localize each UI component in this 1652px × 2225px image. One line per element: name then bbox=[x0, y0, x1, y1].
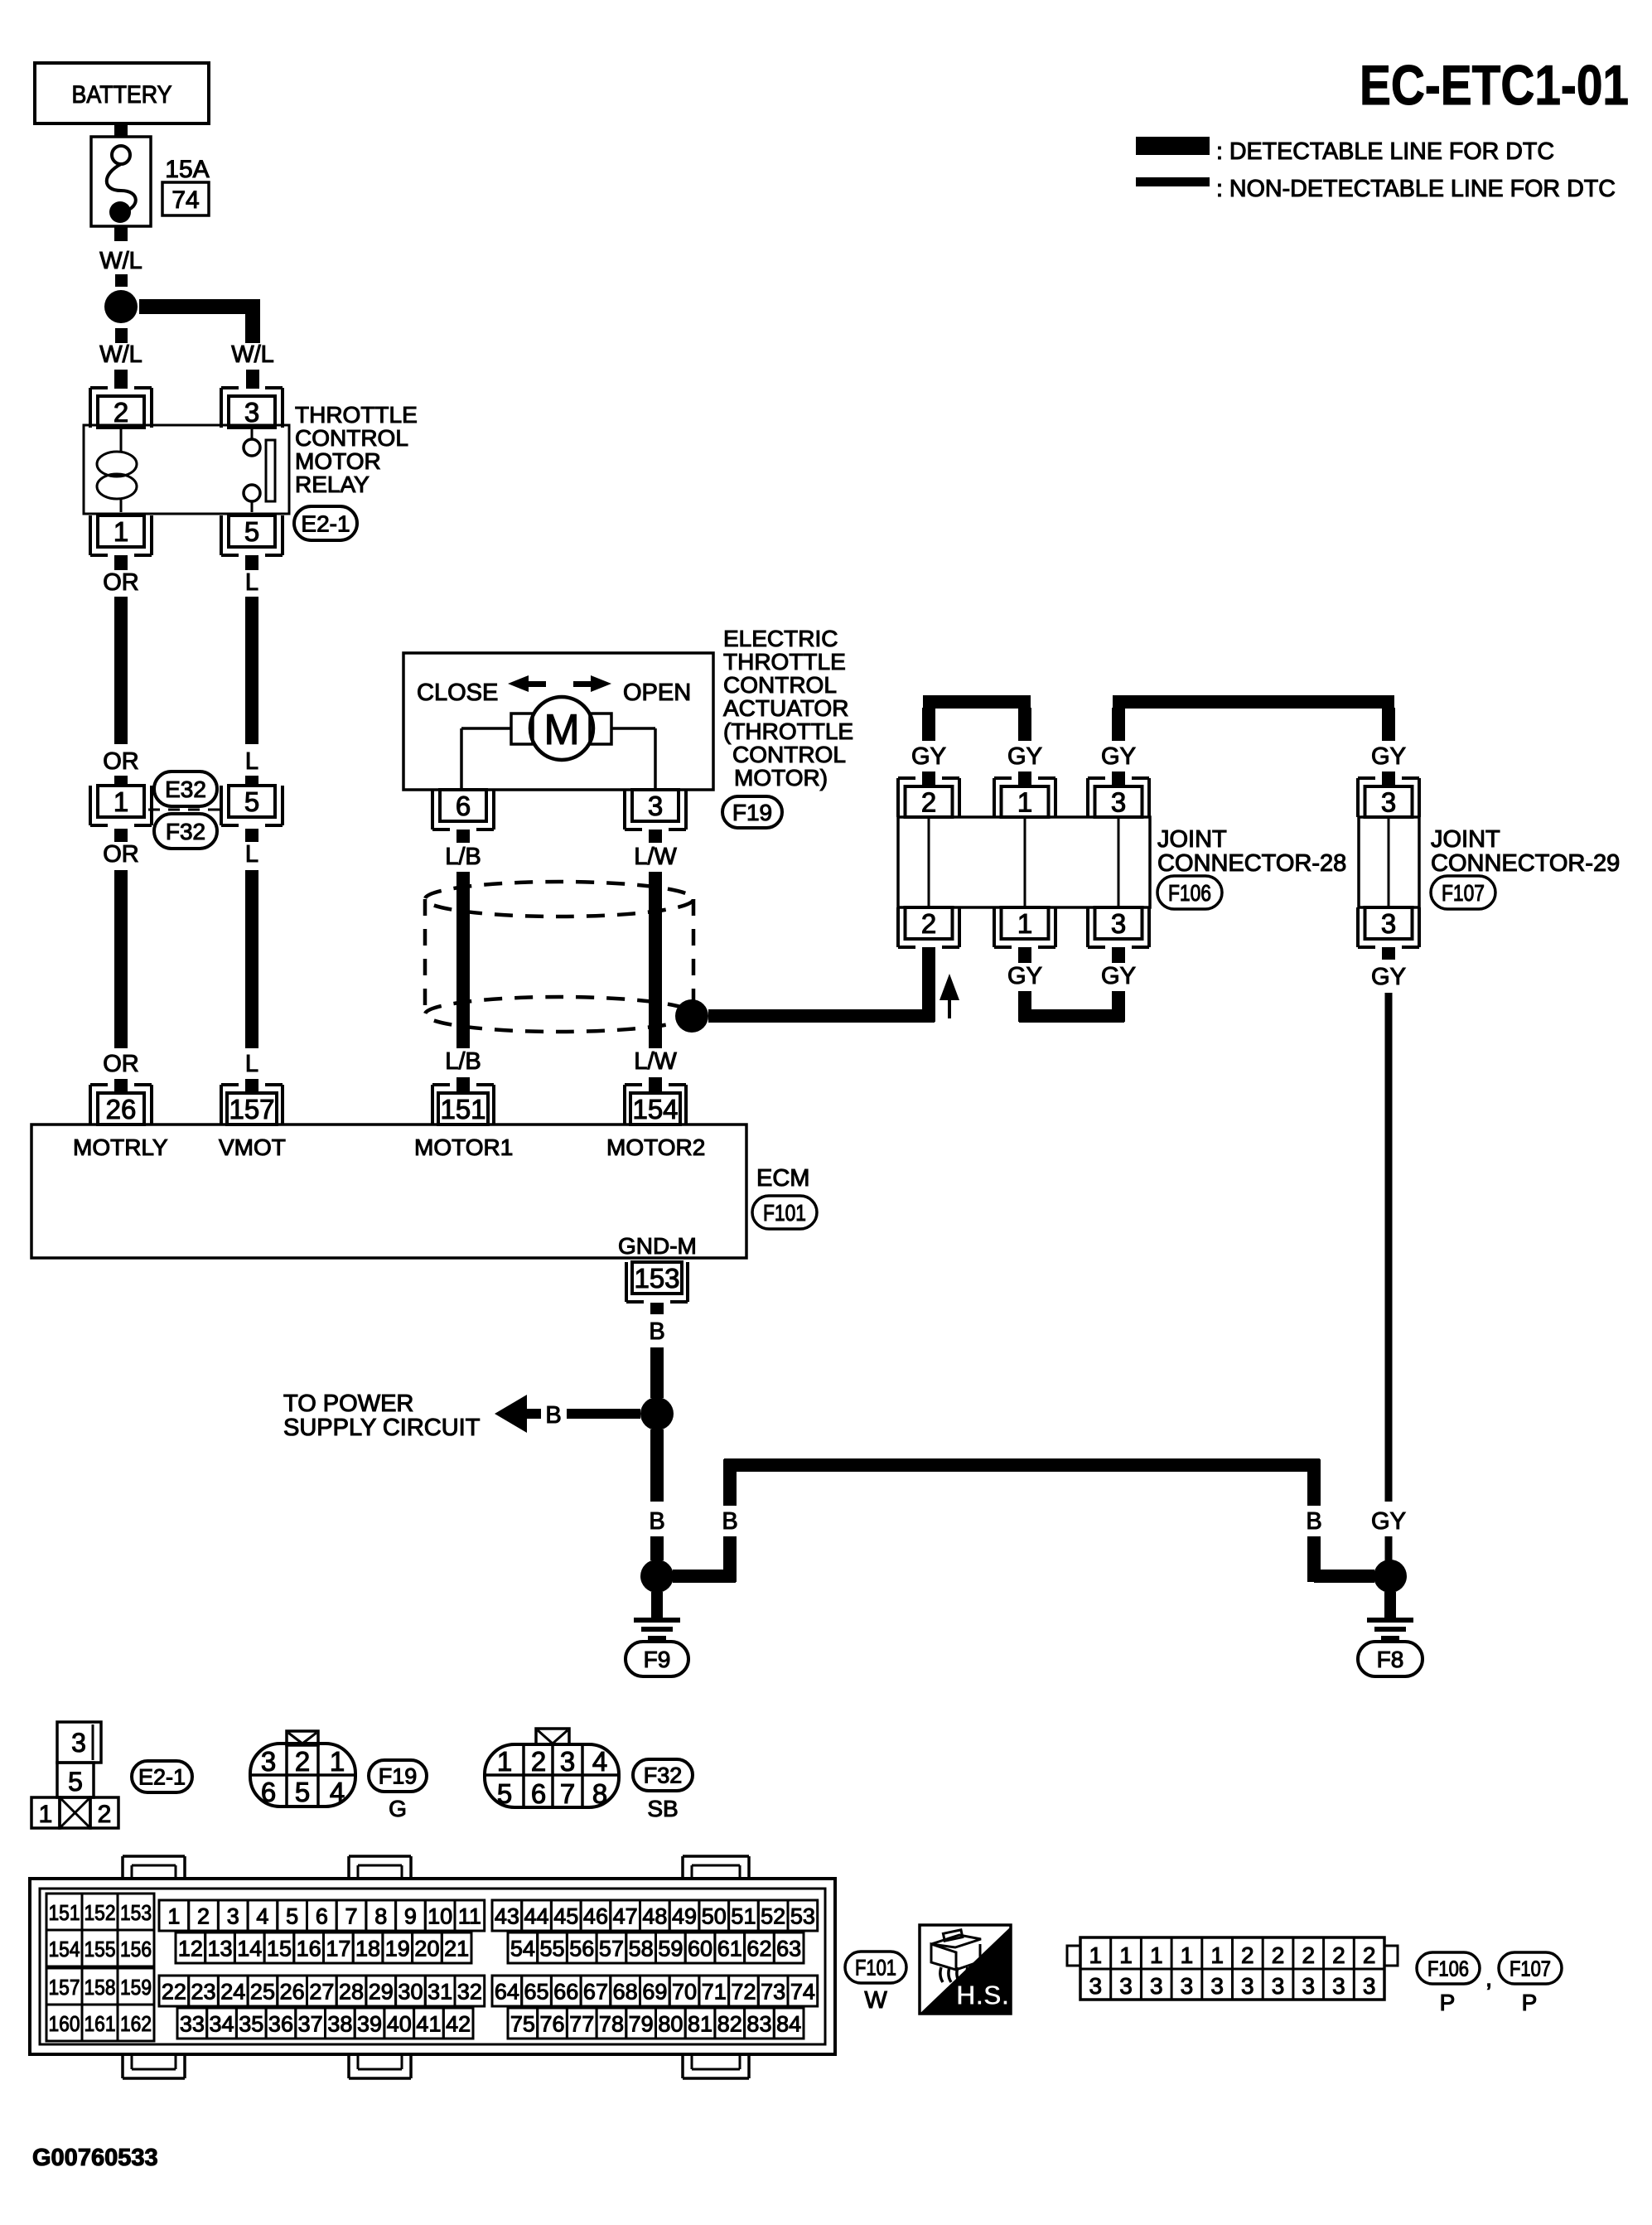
connector ref F19 (footprint) bbox=[369, 1760, 427, 1821]
svg-text:43: 43 bbox=[495, 1904, 519, 1929]
wire L relay pin 5 to connector F32 pin 5 bbox=[245, 555, 258, 786]
svg-text:161: 161 bbox=[85, 2011, 116, 2036]
svg-text:3: 3 bbox=[1150, 1973, 1163, 1999]
svg-text:L/B: L/B bbox=[445, 1048, 481, 1075]
svg-text:13: 13 bbox=[208, 1937, 233, 1961]
svg-text:3: 3 bbox=[1363, 1973, 1376, 1999]
svg-text:L: L bbox=[245, 569, 258, 596]
svg-text:45: 45 bbox=[553, 1904, 578, 1929]
relay K1: throttle control motor relay bbox=[84, 425, 289, 514]
actuator pin 6 bbox=[432, 790, 494, 830]
svg-text:MOTOR: MOTOR bbox=[295, 448, 381, 474]
ground symbol F8 bbox=[1367, 1592, 1413, 1641]
ECM pin 26 bbox=[90, 1085, 152, 1125]
svg-text:7: 7 bbox=[345, 1904, 358, 1929]
ECM pin 153 GND-M bbox=[626, 1262, 688, 1302]
svg-text:2: 2 bbox=[531, 1746, 546, 1777]
svg-text:20: 20 bbox=[414, 1937, 439, 1961]
svg-text:49: 49 bbox=[672, 1904, 697, 1929]
dashed connector separator bbox=[148, 809, 222, 811]
svg-text:8: 8 bbox=[374, 1904, 387, 1929]
svg-text:76: 76 bbox=[540, 2012, 565, 2037]
svg-text:: DETECTABLE LINE FOR DTC: : DETECTABLE LINE FOR DTC bbox=[1216, 138, 1554, 165]
svg-text:3: 3 bbox=[1089, 1973, 1103, 1999]
svg-text:E2-1: E2-1 bbox=[138, 1765, 186, 1790]
svg-text:3: 3 bbox=[1332, 1973, 1345, 1999]
svg-text:157: 157 bbox=[49, 1975, 80, 2000]
svg-text:5: 5 bbox=[286, 1904, 298, 1929]
svg-text:F106: F106 bbox=[1168, 880, 1211, 906]
svg-text:40: 40 bbox=[387, 2012, 412, 2037]
svg-text:MOTOR): MOTOR) bbox=[734, 765, 828, 791]
relay pin 3 bbox=[221, 388, 283, 428]
svg-text:W/L: W/L bbox=[99, 248, 142, 274]
wire W/L battery to fuse bbox=[114, 123, 128, 146]
svg-text:3: 3 bbox=[1119, 1973, 1133, 1999]
wire junction to joint connector-28 pin 2 bottom bbox=[708, 947, 935, 1023]
svg-text:GND-M: GND-M bbox=[618, 1233, 697, 1259]
connector E32/F32 pin 5 bbox=[221, 786, 283, 825]
svg-text:81: 81 bbox=[688, 2012, 712, 2037]
connector ref F101 (footprint) bbox=[845, 1952, 906, 2014]
wire B ground bus F9 to F8 bbox=[673, 1458, 1374, 1583]
legend non-detectable line bbox=[1136, 176, 1616, 202]
shield cylinder (dashed) bbox=[425, 882, 693, 1032]
wire GY bridge F106 pin2 to pin1 bbox=[911, 695, 1042, 786]
svg-text:B: B bbox=[649, 1318, 664, 1345]
svg-text:10: 10 bbox=[427, 1904, 452, 1929]
svg-text:37: 37 bbox=[298, 2012, 323, 2037]
F106 pin 1 top bbox=[994, 778, 1055, 817]
svg-text:F107: F107 bbox=[1442, 880, 1485, 906]
connector refs F106 , F107 (footprint) bbox=[1417, 1952, 1562, 2015]
ECM pin 154 bbox=[625, 1085, 686, 1125]
svg-text:L: L bbox=[245, 1051, 258, 1077]
svg-text:GY: GY bbox=[1371, 743, 1406, 770]
svg-text:1: 1 bbox=[497, 1746, 512, 1777]
svg-text:5: 5 bbox=[68, 1767, 83, 1797]
svg-text:CONTROL: CONTROL bbox=[295, 425, 408, 451]
svg-text:F106: F106 bbox=[1427, 1956, 1469, 1981]
F106 pin 2 bottom bbox=[898, 907, 959, 947]
svg-text:46: 46 bbox=[583, 1904, 608, 1929]
svg-text:1: 1 bbox=[167, 1904, 180, 1929]
svg-text:8: 8 bbox=[592, 1778, 607, 1809]
svg-text:1: 1 bbox=[1089, 1942, 1103, 1968]
joint connector-29 F107 body bbox=[1359, 817, 1419, 907]
svg-text:CONNECTOR-29: CONNECTOR-29 bbox=[1431, 850, 1620, 877]
svg-text:F8: F8 bbox=[1377, 1647, 1404, 1672]
wire W/L junction to relay pin 2 bbox=[99, 328, 142, 389]
svg-text:1: 1 bbox=[1017, 908, 1032, 939]
svg-text:38: 38 bbox=[327, 2012, 352, 2037]
svg-text:162: 162 bbox=[120, 2011, 152, 2036]
svg-text:TO POWER: TO POWER bbox=[283, 1391, 413, 1417]
svg-text:63: 63 bbox=[776, 1937, 801, 1961]
svg-text:3: 3 bbox=[1302, 1973, 1315, 1999]
svg-text:3: 3 bbox=[1272, 1973, 1285, 1999]
svg-text:39: 39 bbox=[357, 2012, 382, 2037]
svg-text:57: 57 bbox=[599, 1937, 624, 1961]
svg-text:5: 5 bbox=[244, 516, 259, 547]
svg-text:MOTRLY: MOTRLY bbox=[73, 1134, 168, 1160]
wire GY F107 pin3 down to ground junction (non-detectable thin) bbox=[1371, 947, 1406, 1560]
svg-text:74: 74 bbox=[790, 1980, 815, 2005]
svg-text:15A: 15A bbox=[165, 156, 209, 183]
svg-text:3: 3 bbox=[1210, 1973, 1224, 1999]
svg-text:: NON-DETECTABLE LINE FOR DTC: : NON-DETECTABLE LINE FOR DTC bbox=[1216, 176, 1616, 202]
svg-text:15: 15 bbox=[267, 1937, 292, 1961]
svg-text:17: 17 bbox=[326, 1937, 350, 1961]
ground symbol F9 bbox=[634, 1592, 680, 1641]
svg-text:VMOT: VMOT bbox=[219, 1134, 286, 1160]
svg-text:25: 25 bbox=[250, 1980, 275, 2005]
svg-text:160: 160 bbox=[49, 2011, 80, 2036]
svg-text:32: 32 bbox=[457, 1980, 482, 2005]
node L/W junction bbox=[675, 999, 708, 1033]
svg-text:73: 73 bbox=[761, 1980, 785, 2005]
connector footprint F19 bbox=[250, 1731, 355, 1807]
svg-text:23: 23 bbox=[191, 1980, 216, 2005]
fuse 15A [74] bbox=[91, 137, 210, 226]
F106 pin 3 top bbox=[1088, 778, 1149, 817]
svg-text:L/W: L/W bbox=[634, 1048, 677, 1075]
svg-text:ECM: ECM bbox=[756, 1165, 809, 1192]
svg-text:5: 5 bbox=[497, 1778, 512, 1809]
relay pin 1 bbox=[90, 515, 152, 555]
node B power junction bbox=[640, 1397, 674, 1430]
svg-text:154: 154 bbox=[49, 1937, 80, 1961]
svg-text:(THROTTLE: (THROTTLE bbox=[723, 718, 853, 744]
svg-text:2: 2 bbox=[295, 1746, 310, 1777]
svg-text:48: 48 bbox=[642, 1904, 667, 1929]
svg-text:2: 2 bbox=[1302, 1942, 1315, 1968]
svg-text:159: 159 bbox=[120, 1975, 152, 2000]
svg-text:58: 58 bbox=[629, 1937, 654, 1961]
svg-text:157: 157 bbox=[229, 1094, 274, 1125]
svg-text:28: 28 bbox=[339, 1980, 364, 2005]
svg-text:18: 18 bbox=[355, 1937, 380, 1961]
svg-text:3: 3 bbox=[560, 1746, 575, 1777]
svg-text:153: 153 bbox=[120, 1900, 152, 1925]
node B ground junction F9 bbox=[640, 1560, 674, 1593]
F106 pin 1 bottom bbox=[994, 907, 1055, 947]
svg-text:61: 61 bbox=[717, 1937, 742, 1961]
svg-text:EC-ETC1-01: EC-ETC1-01 bbox=[1360, 54, 1629, 117]
ECM pin 157 bbox=[221, 1085, 283, 1125]
svg-text:82: 82 bbox=[717, 2012, 742, 2037]
svg-text:E32: E32 bbox=[165, 776, 206, 802]
relay pin 2 bbox=[90, 388, 152, 428]
svg-text:27: 27 bbox=[309, 1980, 334, 2005]
svg-text:P: P bbox=[1522, 1990, 1538, 2015]
F106 pin 3 bottom bbox=[1088, 907, 1149, 947]
svg-text:154: 154 bbox=[632, 1094, 678, 1125]
svg-text:W/L: W/L bbox=[99, 341, 142, 368]
svg-text:64: 64 bbox=[495, 1980, 519, 2005]
svg-text:2: 2 bbox=[1363, 1942, 1376, 1968]
svg-text:70: 70 bbox=[672, 1980, 697, 2005]
svg-text:158: 158 bbox=[85, 1975, 116, 2000]
svg-text:OPEN: OPEN bbox=[623, 680, 691, 706]
svg-text:69: 69 bbox=[642, 1980, 667, 2005]
svg-text:2: 2 bbox=[1272, 1942, 1285, 1968]
svg-text:80: 80 bbox=[658, 2012, 683, 2037]
F106 pin 2 top bbox=[898, 778, 959, 817]
svg-text:50: 50 bbox=[702, 1904, 727, 1929]
svg-text:SB: SB bbox=[647, 1796, 678, 1821]
actuator name label bbox=[723, 626, 853, 791]
svg-text:3: 3 bbox=[227, 1904, 239, 1929]
svg-text:75: 75 bbox=[510, 2012, 535, 2037]
svg-text:72: 72 bbox=[731, 1980, 756, 2005]
svg-text:F9: F9 bbox=[644, 1647, 671, 1672]
up arrow marker bbox=[940, 974, 959, 1018]
svg-text:,: , bbox=[1485, 1965, 1492, 1992]
connector ref E2-1 (footprint) bbox=[132, 1761, 192, 1792]
svg-text:BATTERY: BATTERY bbox=[72, 81, 172, 109]
svg-text:G00760533: G00760533 bbox=[32, 2145, 158, 2171]
svg-text:THROTTLE: THROTTLE bbox=[295, 402, 418, 428]
svg-text:34: 34 bbox=[210, 2012, 234, 2037]
svg-text:OR: OR bbox=[103, 569, 139, 596]
svg-text:THROTTLE: THROTTLE bbox=[723, 649, 846, 675]
joint connector-28 F106 body bbox=[898, 817, 1150, 907]
svg-text:JOINT: JOINT bbox=[1157, 826, 1227, 853]
svg-text:5: 5 bbox=[244, 786, 259, 817]
svg-text:B: B bbox=[1306, 1508, 1321, 1535]
svg-text:3: 3 bbox=[261, 1746, 276, 1777]
svg-text:CONTROL: CONTROL bbox=[732, 742, 846, 767]
battery bbox=[35, 63, 209, 123]
wire GY U-link F106 pins 1-3 bottom bbox=[1007, 947, 1136, 1023]
wire W/L branch junction to relay pin 3 bbox=[139, 299, 274, 389]
svg-text:54: 54 bbox=[510, 1937, 535, 1961]
ECM connector footprint F101 bbox=[30, 1856, 835, 2078]
svg-text:2: 2 bbox=[921, 786, 936, 817]
svg-text:RELAY: RELAY bbox=[295, 472, 370, 497]
svg-text:77: 77 bbox=[569, 2012, 594, 2037]
svg-text:L/B: L/B bbox=[445, 844, 481, 870]
wire L/B actuator pin 6 to ECM pin 151 bbox=[445, 830, 481, 1093]
svg-text:7: 7 bbox=[560, 1778, 575, 1809]
wire OR relay pin 1 to connector E32 pin 1 bbox=[103, 555, 139, 786]
svg-text:71: 71 bbox=[702, 1980, 727, 2005]
svg-text:OR: OR bbox=[103, 1051, 139, 1077]
svg-text:2: 2 bbox=[114, 397, 128, 428]
svg-text:GY: GY bbox=[1371, 964, 1406, 990]
svg-text:36: 36 bbox=[268, 2012, 293, 2037]
connector ref F32 (footprint) bbox=[633, 1759, 693, 1821]
svg-text:3: 3 bbox=[1381, 908, 1396, 939]
svg-text:44: 44 bbox=[524, 1904, 549, 1929]
svg-text:56: 56 bbox=[569, 1937, 594, 1961]
svg-text:62: 62 bbox=[746, 1937, 771, 1961]
svg-text:6: 6 bbox=[456, 791, 471, 821]
svg-text:2: 2 bbox=[921, 908, 936, 939]
svg-text:L: L bbox=[245, 748, 258, 775]
svg-text:29: 29 bbox=[369, 1980, 394, 2005]
svg-text:84: 84 bbox=[776, 2012, 801, 2037]
connector ref F32 bbox=[154, 814, 217, 849]
svg-text:151: 151 bbox=[440, 1094, 485, 1125]
connector footprint F32 bbox=[485, 1729, 619, 1809]
svg-text:6: 6 bbox=[531, 1778, 546, 1809]
connector ref F101 bbox=[752, 1196, 817, 1229]
svg-text:W/L: W/L bbox=[231, 341, 274, 368]
svg-text:83: 83 bbox=[746, 2012, 771, 2037]
joint connector footprint F106/F107 bbox=[1067, 1937, 1398, 2000]
svg-text:GY: GY bbox=[911, 743, 946, 770]
svg-text:B: B bbox=[722, 1508, 737, 1535]
svg-text:F101: F101 bbox=[855, 1956, 896, 1981]
svg-text:55: 55 bbox=[540, 1937, 565, 1961]
svg-text:24: 24 bbox=[220, 1980, 245, 2005]
svg-text:3: 3 bbox=[1181, 1973, 1194, 1999]
connector E32/F32 pin 1 bbox=[90, 786, 152, 825]
svg-text:151: 151 bbox=[49, 1900, 80, 1925]
svg-text:B: B bbox=[649, 1508, 664, 1535]
electric throttle control actuator box bbox=[403, 653, 713, 790]
svg-text:3: 3 bbox=[1111, 908, 1126, 939]
connector ref F19 bbox=[722, 796, 782, 828]
connector ref F106 bbox=[1157, 876, 1222, 909]
svg-text:E2-1: E2-1 bbox=[301, 511, 350, 537]
joint connector-29 label bbox=[1431, 826, 1620, 877]
svg-text:26: 26 bbox=[280, 1980, 305, 2005]
wire L/W actuator pin 3 to ECM pin 154 bbox=[634, 830, 677, 1093]
svg-text:12: 12 bbox=[178, 1937, 203, 1961]
svg-text:3: 3 bbox=[71, 1728, 86, 1758]
svg-text:6: 6 bbox=[261, 1777, 276, 1807]
svg-text:41: 41 bbox=[416, 2012, 441, 2037]
legend detectable line bbox=[1136, 137, 1554, 165]
connector footprint E2-1 bbox=[31, 1722, 118, 1828]
svg-text:5: 5 bbox=[295, 1777, 310, 1807]
svg-text:ELECTRIC: ELECTRIC bbox=[723, 626, 838, 651]
svg-text:F101: F101 bbox=[763, 1200, 806, 1226]
svg-text:79: 79 bbox=[629, 2012, 654, 2037]
svg-text:3: 3 bbox=[244, 397, 259, 428]
svg-text:16: 16 bbox=[297, 1937, 321, 1961]
H.S. view icon bbox=[920, 1925, 1011, 2014]
svg-text:1: 1 bbox=[114, 786, 128, 817]
svg-text:51: 51 bbox=[731, 1904, 756, 1929]
ECM pin 151 bbox=[432, 1085, 494, 1125]
svg-text:21: 21 bbox=[444, 1937, 469, 1961]
node GY ground junction F8 bbox=[1374, 1560, 1407, 1593]
svg-text:4: 4 bbox=[330, 1777, 345, 1807]
F107 pin 3 bottom bbox=[1358, 907, 1419, 947]
svg-text:30: 30 bbox=[398, 1980, 423, 2005]
svg-text:GY: GY bbox=[1101, 743, 1136, 770]
svg-text:1: 1 bbox=[1210, 1942, 1224, 1968]
svg-text:SUPPLY CIRCUIT: SUPPLY CIRCUIT bbox=[283, 1415, 481, 1441]
svg-text:19: 19 bbox=[385, 1937, 410, 1961]
connector ref F9 bbox=[626, 1642, 688, 1676]
svg-text:F32: F32 bbox=[166, 819, 205, 844]
to power supply circuit label + arrow bbox=[283, 1391, 640, 1441]
connector ref F8 bbox=[1358, 1642, 1423, 1676]
svg-text:2: 2 bbox=[1332, 1942, 1345, 1968]
svg-text:F107: F107 bbox=[1510, 1956, 1551, 1981]
svg-text:ACTUATOR: ACTUATOR bbox=[723, 695, 848, 721]
wire B GND-M down to power junction bbox=[649, 1303, 664, 1398]
ECM box bbox=[31, 1125, 746, 1259]
svg-text:H.S.: H.S. bbox=[956, 1980, 1009, 2010]
svg-text:1: 1 bbox=[114, 516, 128, 547]
svg-text:74: 74 bbox=[171, 186, 199, 214]
svg-text:66: 66 bbox=[553, 1980, 578, 2005]
svg-text:14: 14 bbox=[237, 1937, 262, 1961]
svg-text:F32: F32 bbox=[644, 1763, 683, 1788]
svg-text:M: M bbox=[543, 706, 579, 754]
svg-text:1: 1 bbox=[1119, 1942, 1133, 1968]
actuator pin 3 bbox=[625, 790, 686, 830]
svg-text:2: 2 bbox=[1241, 1942, 1254, 1968]
svg-text:31: 31 bbox=[427, 1980, 452, 2005]
svg-text:MOTOR2: MOTOR2 bbox=[606, 1134, 705, 1160]
F107 pin 3 top bbox=[1358, 778, 1419, 817]
svg-text:22: 22 bbox=[162, 1980, 186, 2005]
svg-text:156: 156 bbox=[120, 1937, 152, 1961]
svg-text:152: 152 bbox=[85, 1900, 116, 1925]
svg-text:1: 1 bbox=[1181, 1942, 1194, 1968]
svg-text:47: 47 bbox=[613, 1904, 638, 1929]
svg-text:53: 53 bbox=[790, 1904, 815, 1929]
svg-text:MOTOR1: MOTOR1 bbox=[414, 1134, 513, 1160]
svg-text:GY: GY bbox=[1101, 963, 1136, 989]
svg-text:W: W bbox=[864, 1987, 887, 2014]
svg-text:42: 42 bbox=[446, 2012, 471, 2037]
svg-text:1: 1 bbox=[330, 1746, 345, 1777]
svg-text:GY: GY bbox=[1007, 743, 1042, 770]
svg-text:78: 78 bbox=[599, 2012, 624, 2037]
svg-text:33: 33 bbox=[180, 2012, 205, 2037]
svg-text:1: 1 bbox=[1017, 786, 1032, 817]
svg-text:2: 2 bbox=[197, 1904, 210, 1929]
svg-text:L: L bbox=[245, 841, 258, 868]
svg-text:26: 26 bbox=[106, 1094, 137, 1125]
connector ref E32 bbox=[154, 771, 217, 806]
svg-text:3: 3 bbox=[1241, 1973, 1254, 1999]
svg-text:L/W: L/W bbox=[634, 844, 677, 870]
node battery junction bbox=[104, 290, 138, 323]
svg-text:67: 67 bbox=[583, 1980, 608, 2005]
relay name label bbox=[295, 402, 418, 497]
svg-text:59: 59 bbox=[658, 1937, 683, 1961]
svg-text:2: 2 bbox=[98, 1801, 112, 1828]
svg-text:F19: F19 bbox=[379, 1764, 418, 1789]
svg-text:35: 35 bbox=[239, 2012, 263, 2037]
wire W/L fuse to junction bbox=[99, 226, 142, 287]
wire L connector E32/F32 to ECM pin 157 bbox=[245, 829, 258, 1093]
svg-text:1: 1 bbox=[1150, 1942, 1163, 1968]
svg-text:52: 52 bbox=[761, 1904, 785, 1929]
svg-text:4: 4 bbox=[592, 1746, 607, 1777]
svg-text:1: 1 bbox=[39, 1801, 53, 1828]
svg-text:60: 60 bbox=[688, 1937, 712, 1961]
svg-text:OR: OR bbox=[103, 841, 139, 868]
svg-text:3: 3 bbox=[1381, 786, 1396, 817]
svg-text:CONNECTOR-28: CONNECTOR-28 bbox=[1157, 850, 1346, 877]
svg-text:F19: F19 bbox=[732, 800, 772, 825]
svg-text:155: 155 bbox=[85, 1937, 116, 1961]
svg-text:6: 6 bbox=[316, 1904, 328, 1929]
svg-text:GY: GY bbox=[1371, 1508, 1406, 1535]
svg-text:G: G bbox=[389, 1796, 407, 1821]
svg-text:11: 11 bbox=[458, 1904, 481, 1929]
